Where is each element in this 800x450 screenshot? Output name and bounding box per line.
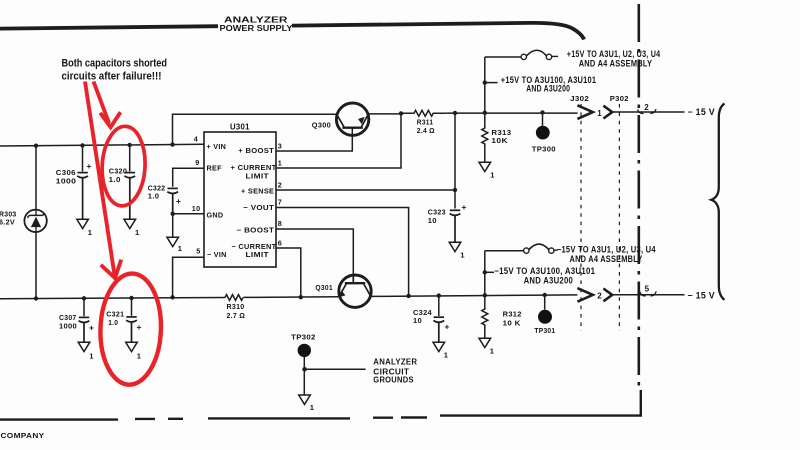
wire: +15V fuse feed vertical	[484, 57, 486, 113]
wire: pin6 -CURRENT LIMIT down to -15V rail	[276, 248, 301, 297]
node dot pin1/rail	[399, 111, 403, 115]
svg-text:− VIN: − VIN	[207, 250, 227, 259]
svg-text:1000: 1000	[56, 176, 77, 185]
wire: GND down to ground	[172, 214, 174, 237]
dashed bottom border segments	[0, 418, 427, 420]
svg-text:6: 6	[278, 239, 282, 248]
svg-text:2.7 Ω: 2.7 Ω	[227, 311, 246, 320]
svg-text:REF: REF	[207, 164, 223, 173]
node dots on -15V rail (left)	[34, 296, 134, 301]
capacitor C323	[450, 210, 461, 242]
svg-text:+: +	[87, 161, 92, 171]
node dot -VOUT/rail	[406, 294, 410, 298]
ground (below R313)	[479, 162, 491, 171]
wire: -15V rail after connector	[612, 294, 684, 296]
svg-text:1: 1	[460, 251, 465, 260]
capacitor C324 wire	[438, 296, 440, 316]
test point TP301	[538, 295, 552, 324]
wire: pin8 -BOOST to Q301 base	[276, 229, 353, 275]
connector P302 chevron	[603, 106, 612, 119]
svg-text:8: 8	[278, 219, 282, 228]
capacitor C321	[126, 317, 137, 342]
svg-text:1: 1	[137, 352, 142, 361]
connector J302 pin 2 chevron	[577, 288, 592, 302]
svg-text:6.2V: 6.2V	[0, 218, 15, 227]
dash-dot assembly boundary (vertical)	[637, 4, 640, 392]
svg-text:3: 3	[278, 142, 282, 151]
svg-text:Both capacitors shorted: Both capacitors shorted	[62, 57, 168, 69]
resistor R313	[482, 113, 488, 162]
node dot GND/C322	[171, 212, 175, 216]
ground (below C320)	[124, 219, 136, 228]
svg-text:+: +	[89, 323, 94, 333]
svg-text:J302: J302	[570, 94, 589, 103]
svg-text:+ BOOST: + BOOST	[238, 146, 274, 155]
wire: -15V fuse feed vertical	[484, 251, 486, 296]
fuse/jumper W (-15V)	[524, 244, 558, 253]
svg-text:ANALYZER: ANALYZER	[373, 357, 417, 366]
connector J302 pin 1 chevron	[577, 105, 592, 119]
wire: pin7 -VOUT down to -15V rail	[276, 208, 409, 296]
capacitor C307	[79, 317, 90, 342]
wire: +15V rail after connector	[612, 111, 684, 113]
svg-text:C321: C321	[106, 309, 124, 318]
zener diode VR303 branch wire (top)	[35, 146, 37, 211]
wire: rail up to Q300 emitter line	[173, 114, 337, 144]
node dot pin5/rail	[170, 295, 174, 299]
fuse/jumper W (+15V)	[521, 50, 558, 59]
resistor R310 (in-line on rail)	[225, 295, 243, 301]
transistor Q300	[336, 103, 368, 135]
svg-text:10: 10	[192, 204, 201, 213]
svg-text:9: 9	[195, 158, 199, 167]
svg-text:AND A3U200: AND A3U200	[526, 84, 570, 94]
dashed boundary P302	[618, 104, 620, 331]
svg-text:10 K: 10 K	[503, 318, 521, 327]
svg-text:1: 1	[278, 159, 282, 168]
node dot +15V stub	[483, 80, 487, 84]
top border brace: analyzer power supply (left segment)	[0, 26, 218, 28]
wire: C323 branch vertical	[454, 113, 456, 209]
zener diode VR303	[24, 210, 46, 233]
svg-text:LIMIT: LIMIT	[246, 250, 270, 259]
svg-text:TP301: TP301	[534, 326, 555, 335]
svg-text:1000: 1000	[59, 322, 77, 331]
wire: stub to +15V A3U100 label	[485, 82, 498, 84]
connector P302 chevron (bottom)	[603, 289, 612, 302]
IC U301 box	[204, 132, 276, 267]
svg-text:+: +	[176, 196, 181, 206]
test point TP302	[298, 344, 366, 395]
svg-text:1.0: 1.0	[148, 192, 160, 201]
svg-text:+: +	[445, 321, 450, 331]
dashed boundary J302	[580, 104, 582, 331]
ground (below C322)	[167, 237, 179, 246]
ground (below C324)	[433, 342, 445, 351]
svg-text:AND A4 ASSEMBLY: AND A4 ASSEMBLY	[570, 254, 643, 264]
svg-text:P302: P302	[610, 94, 629, 103]
capacitor C320 wire	[129, 145, 131, 171]
capacitor C322	[167, 188, 178, 213]
capacitor C321 wire	[131, 298, 133, 316]
svg-text:2: 2	[278, 181, 282, 190]
capacitor C324	[433, 317, 444, 342]
wire: pin5 -VIN down to -15V rail	[173, 257, 204, 297]
svg-text:1: 1	[490, 170, 495, 179]
test point TP300	[536, 113, 550, 140]
svg-text:1: 1	[89, 352, 94, 361]
assembly boundary corner	[440, 390, 641, 416]
wire: stub to -15V A3U100 label	[485, 271, 494, 273]
node dot -15V stub	[483, 270, 487, 274]
brace (right, joining +-15V outputs)	[711, 104, 724, 300]
svg-text:5: 5	[645, 285, 650, 294]
wire: pin2 +SENSE to C323 branch	[276, 189, 455, 191]
wire: output rail to connector J302	[446, 112, 577, 114]
capacitor C306 wire	[82, 145, 84, 171]
svg-text:POWER SUPPLY: POWER SUPPLY	[220, 24, 294, 33]
zener VR303 branch wire (bottom)	[35, 232, 37, 298]
svg-text:10: 10	[428, 216, 437, 225]
wire: Q300 collector to R311	[369, 113, 401, 115]
svg-text:1.0: 1.0	[108, 318, 118, 327]
wire: pin10 GND stub	[173, 213, 204, 215]
svg-text:10: 10	[413, 316, 422, 325]
svg-text:1: 1	[444, 350, 449, 359]
resistor R312	[482, 295, 488, 338]
wire hooks at boundary (bottom, pin 5)	[640, 291, 656, 296]
red annotation ellipse around C320	[100, 125, 147, 207]
svg-text:AND A3U200: AND A3U200	[524, 276, 574, 286]
svg-text:+ SENSE: + SENSE	[241, 187, 274, 196]
ground reference numerals "1"	[88, 170, 495, 412]
svg-text:COMPANY: COMPANY	[1, 431, 45, 440]
svg-text:GROUNDS: GROUNDS	[373, 375, 414, 384]
svg-text:LIMIT: LIMIT	[246, 171, 270, 180]
node dot +SENSE	[453, 188, 457, 192]
capacitor C320	[124, 173, 135, 219]
node: rail junction dots	[34, 142, 175, 147]
svg-text:+ VIN: + VIN	[207, 142, 227, 151]
svg-text:U301: U301	[230, 123, 250, 132]
capacitor C306	[77, 173, 88, 219]
svg-text:TP300: TP300	[532, 144, 556, 153]
svg-text:1: 1	[597, 109, 602, 118]
ground (below C306)	[77, 219, 89, 228]
svg-text:1: 1	[178, 244, 183, 253]
svg-text:2: 2	[597, 292, 602, 301]
top border brace: right segment curving down	[292, 23, 584, 40]
resistor R311	[401, 110, 446, 116]
svg-text:Q301: Q301	[315, 283, 333, 292]
node dots on -15V rail	[437, 293, 547, 298]
svg-text:1.0: 1.0	[109, 175, 121, 184]
svg-text:7: 7	[278, 198, 282, 207]
svg-text:GND: GND	[207, 211, 224, 220]
svg-text:+: +	[137, 322, 142, 332]
svg-text:1: 1	[88, 228, 93, 237]
svg-text:1: 1	[490, 346, 495, 355]
wire: pin1 +CURRENT LIMIT up to output rail	[276, 113, 401, 168]
wire hooks at boundary (top, pin 2)	[638, 109, 656, 113]
ground (below TP302)	[299, 395, 311, 404]
ground (below R312)	[479, 338, 491, 347]
svg-text:+: +	[462, 202, 467, 212]
svg-text:− 15 V: − 15 V	[688, 107, 715, 117]
svg-text:− VOUT: − VOUT	[243, 203, 274, 212]
svg-text:4: 4	[194, 134, 198, 143]
red annotation ellipse around C321	[99, 272, 163, 385]
ground (below C307)	[78, 342, 90, 351]
svg-text:2.4 Ω: 2.4 Ω	[417, 126, 435, 135]
red annotation arrow 1 (to C320)	[94, 82, 121, 128]
node dot pin6/rail	[299, 295, 303, 299]
wire: -15V rail from Q301 to connector	[372, 295, 578, 297]
ground (below C323)	[449, 242, 461, 251]
transistor Q301	[339, 275, 371, 307]
svg-text:1: 1	[135, 228, 140, 237]
svg-text:5: 5	[196, 246, 200, 255]
svg-text:10K: 10K	[491, 136, 508, 145]
svg-text:2: 2	[644, 103, 649, 112]
wire: fuse horizontal (-15V)	[485, 250, 524, 252]
wire: pin3 +BOOST to Q300 base	[276, 128, 352, 151]
wire: fuse horizontal	[485, 56, 521, 58]
svg-text:− BOOST: − BOOST	[237, 225, 275, 234]
svg-text:AND A4 ASSEMBLY: AND A4 ASSEMBLY	[579, 59, 653, 69]
wire: pin9 REF stub	[173, 168, 204, 187]
svg-text:Q300: Q300	[312, 120, 331, 129]
svg-text:1: 1	[310, 403, 315, 412]
svg-text:C307: C307	[59, 313, 77, 322]
svg-text:circuits after failure!!!: circuits after failure!!!	[62, 70, 162, 82]
node dots on +15V output rail	[453, 110, 545, 115]
ground (below C321)	[126, 342, 138, 351]
capacitor C307 wire	[83, 298, 85, 316]
-15V rail (bottom, left part)	[0, 297, 338, 299]
red annotation arrow 2 (to C321)	[85, 82, 121, 279]
svg-text:TP302: TP302	[291, 333, 316, 342]
svg-text:− 15 V: − 15 V	[688, 290, 715, 300]
+15V input rail (left)	[0, 144, 204, 146]
